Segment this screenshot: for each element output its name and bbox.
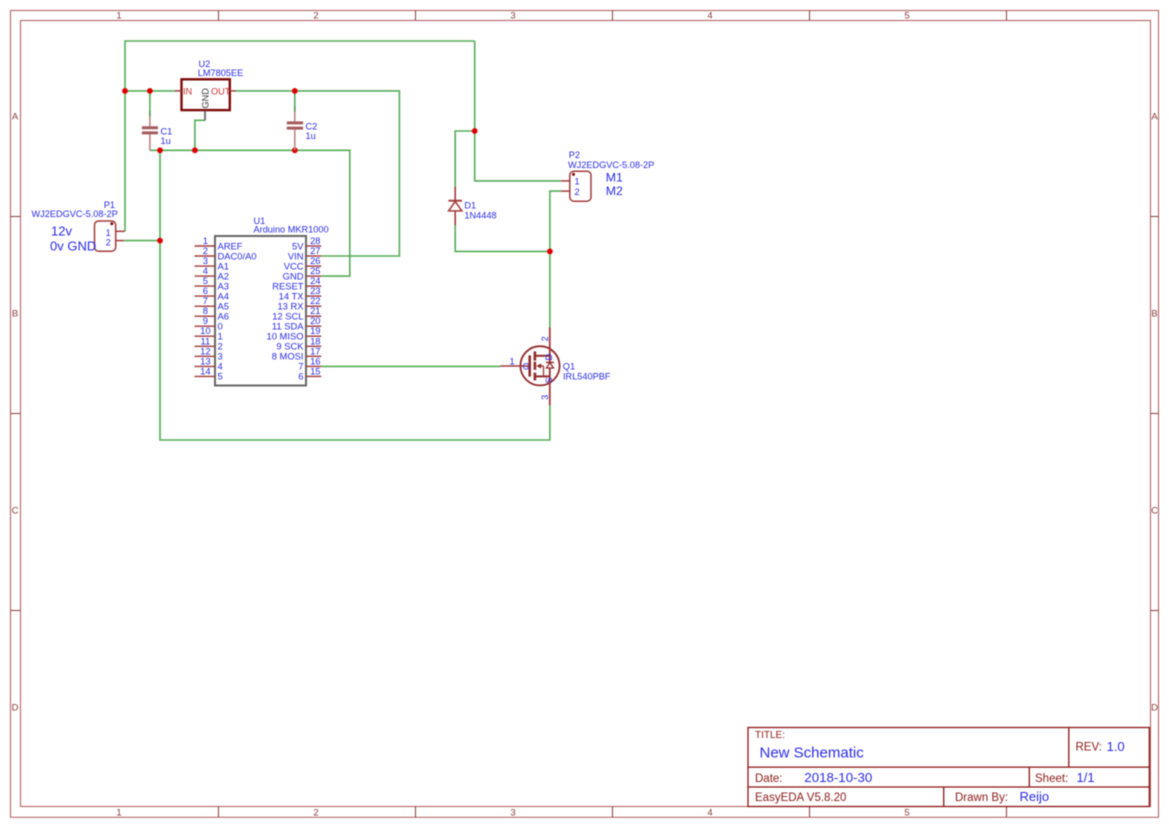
svg-text:M1: M1 [606, 170, 623, 184]
svg-text:Arduino MKR1000: Arduino MKR1000 [254, 224, 329, 234]
svg-text:Q1: Q1 [563, 362, 575, 372]
frame column labels top [116, 11, 909, 22]
wire D1 bottom to junction [455, 225, 550, 251]
svg-text:3: 3 [510, 807, 515, 818]
Q1 drain connect [535, 355, 550, 357]
junction dot left vertical on ground rail [157, 147, 163, 153]
diode D1 triangle [449, 201, 462, 211]
svg-text:Drawn By:: Drawn By: [955, 792, 1008, 804]
svg-text:1N4448: 1N4448 [464, 211, 496, 221]
svg-text:LM7805EE: LM7805EE [198, 68, 243, 78]
title block REV divider [1068, 728, 1070, 768]
wire P1 pin2 [124, 240, 160, 242]
title block row line 1 [748, 766, 1149, 768]
U1 right pin names [267, 240, 305, 381]
title block row line 2 [748, 786, 1149, 788]
Q1 internal vertical [549, 356, 551, 377]
wire U1 pin16 to Q1 gate [321, 365, 500, 367]
junction dot C2 bottom [292, 147, 298, 153]
U1 right pin numbers [310, 235, 320, 376]
title block outline [748, 728, 1149, 807]
U1 left pin numbers [200, 235, 210, 376]
svg-text:WJ2EDGVC-5.08-2P: WJ2EDGVC-5.08-2P [32, 209, 118, 219]
P1 pin1 stub [116, 230, 125, 232]
svg-text:A: A [12, 111, 19, 122]
wire GND of U2 to rail [195, 120, 205, 150]
svg-text:S: S [544, 377, 554, 383]
svg-text:15: 15 [310, 365, 320, 376]
svg-text:2: 2 [313, 807, 318, 818]
U1 right pin stubs [306, 246, 321, 376]
svg-text:C: C [1151, 505, 1158, 516]
svg-text:1u: 1u [306, 131, 316, 141]
junction dot IN rail left [122, 88, 128, 94]
frame row labels left [12, 111, 19, 713]
diode D1 cathode bar [448, 200, 462, 202]
diode D1 top stub [454, 187, 456, 200]
svg-text:B: B [12, 308, 18, 319]
title block Sheet divider [1028, 767, 1030, 787]
Q1 source pin stub [549, 376, 551, 405]
svg-text:Reijo: Reijo [1020, 789, 1050, 804]
frame top ticks [219, 11, 1007, 21]
U1 left pin names [218, 240, 257, 381]
junction dot D1 P2 Q1 [547, 249, 553, 255]
P1 pin1 marker dot [110, 222, 113, 225]
svg-text:P2: P2 [569, 150, 580, 160]
frame column labels bottom [116, 807, 909, 818]
svg-text:IRL540PBF: IRL540PBF [563, 371, 611, 381]
svg-text:5: 5 [904, 11, 909, 22]
svg-text:C1: C1 [161, 127, 173, 137]
frame bottom ticks [219, 807, 1007, 818]
wire P2 pin2 to Q1 drain [550, 191, 561, 327]
P2 pin1 stub [561, 180, 570, 182]
Q1 source connect [535, 375, 550, 377]
svg-text:D: D [1151, 702, 1158, 713]
junction dot P1 pin2 [157, 238, 163, 244]
wire C1 pin overlap [149, 112, 151, 118]
Q1 gate bar [528, 355, 531, 376]
svg-text:D: D [544, 353, 554, 360]
junction dot top right [472, 128, 478, 134]
svg-text:2: 2 [106, 237, 111, 247]
Q1 body diode bar [546, 361, 554, 363]
frame row labels right [1151, 111, 1158, 713]
svg-text:B: B [1151, 308, 1157, 319]
svg-text:Sheet:: Sheet: [1035, 773, 1068, 785]
P2 pin1 marker dot [572, 173, 575, 176]
svg-text:1: 1 [106, 228, 111, 238]
capacitor C1 top lead [149, 117, 151, 127]
U2 GND pin stub [204, 110, 206, 120]
wire C2 pin overlap [294, 107, 296, 112]
svg-text:3: 3 [510, 11, 515, 22]
junction dot C2 top [292, 88, 298, 94]
diode D1 bottom stub [454, 211, 456, 226]
wire left vertical to bottom [160, 150, 550, 440]
svg-text:6: 6 [298, 371, 303, 382]
svg-text:12v: 12v [51, 224, 72, 239]
Q1 arrow line [539, 365, 544, 367]
U2 OUT pin stub [230, 90, 236, 92]
svg-text:G: G [523, 362, 530, 372]
junction dot U2 GND on ground rail [192, 147, 198, 153]
svg-text:IN: IN [183, 86, 192, 96]
connector P2 body [570, 171, 591, 201]
svg-text:1: 1 [116, 807, 121, 818]
svg-text:GND: GND [201, 88, 211, 109]
wire C1 top stub [149, 91, 151, 112]
junction dot C1 top [147, 88, 153, 94]
svg-text:2: 2 [575, 187, 580, 197]
frame right ticks [1151, 217, 1159, 611]
wire top right vertical to P2 pin1 [475, 41, 561, 181]
svg-text:WJ2EDGVC-5.08-2P: WJ2EDGVC-5.08-2P [568, 160, 654, 170]
svg-text:3: 3 [540, 395, 550, 400]
Q1 arrow drop [543, 366, 545, 376]
svg-text:1.0: 1.0 [1107, 739, 1125, 754]
svg-text:C2: C2 [306, 122, 318, 132]
frame left ticks [11, 217, 21, 611]
IC U1 body [215, 236, 306, 386]
svg-text:1: 1 [575, 177, 580, 187]
svg-text:REV:: REV: [1076, 742, 1102, 754]
svg-text:1: 1 [116, 11, 121, 22]
svg-text:2: 2 [540, 336, 550, 341]
svg-text:4: 4 [707, 807, 712, 818]
svg-text:4: 4 [707, 11, 712, 22]
svg-text:5: 5 [218, 371, 223, 382]
Q1 body diode triangle [546, 363, 553, 368]
U2 IN pin stub [175, 90, 182, 92]
svg-text:C: C [12, 505, 19, 516]
capacitor C1 bottom lead [149, 134, 151, 150]
svg-text:D1: D1 [464, 201, 476, 211]
title block DrawnBy divider [943, 787, 945, 807]
wire branch to D1 [455, 131, 475, 187]
svg-text:D: D [12, 702, 19, 713]
svg-text:1: 1 [509, 356, 514, 366]
wire top rail [125, 41, 475, 231]
svg-text:1u: 1u [161, 136, 171, 146]
connector P1 body [95, 221, 116, 251]
svg-text:OUT: OUT [211, 86, 231, 96]
svg-text:M2: M2 [606, 184, 623, 198]
Q1 gate stub [500, 365, 529, 367]
svg-text:New Schematic: New Schematic [760, 744, 865, 761]
svg-text:0v GND: 0v GND [50, 238, 96, 253]
wire IN rail [125, 90, 175, 92]
wire ground rail to U1 GND [150, 150, 350, 276]
capacitor C1 plates [142, 128, 158, 133]
Q1 arrowhead [536, 363, 541, 368]
wire C2 top stub [294, 91, 296, 107]
P1 pin2 stub [116, 240, 124, 242]
svg-text:5: 5 [904, 807, 909, 818]
svg-text:A: A [1151, 111, 1158, 122]
svg-text:Date:: Date: [755, 773, 783, 785]
transistor Q1 circle [520, 346, 559, 385]
capacitor C2 bottom lead [294, 130, 296, 151]
regulator U2 body [182, 79, 230, 110]
U1 left pin stubs [195, 246, 216, 376]
svg-text:TITLE:: TITLE: [755, 730, 785, 741]
wire OUT rail to VIN [235, 91, 400, 256]
svg-text:2018-10-30: 2018-10-30 [804, 770, 872, 785]
capacitor C2 plates [287, 123, 303, 128]
svg-text:14: 14 [200, 365, 210, 376]
Q1 drain pin stub [549, 328, 551, 356]
svg-text:1/1: 1/1 [1077, 770, 1095, 785]
svg-text:2: 2 [313, 11, 318, 22]
Q1 channel segments [534, 351, 537, 380]
P2 pin2 stub [561, 190, 570, 192]
svg-text:EasyEDA V5.8.20: EasyEDA V5.8.20 [755, 792, 846, 804]
capacitor C2 top lead [294, 112, 296, 122]
